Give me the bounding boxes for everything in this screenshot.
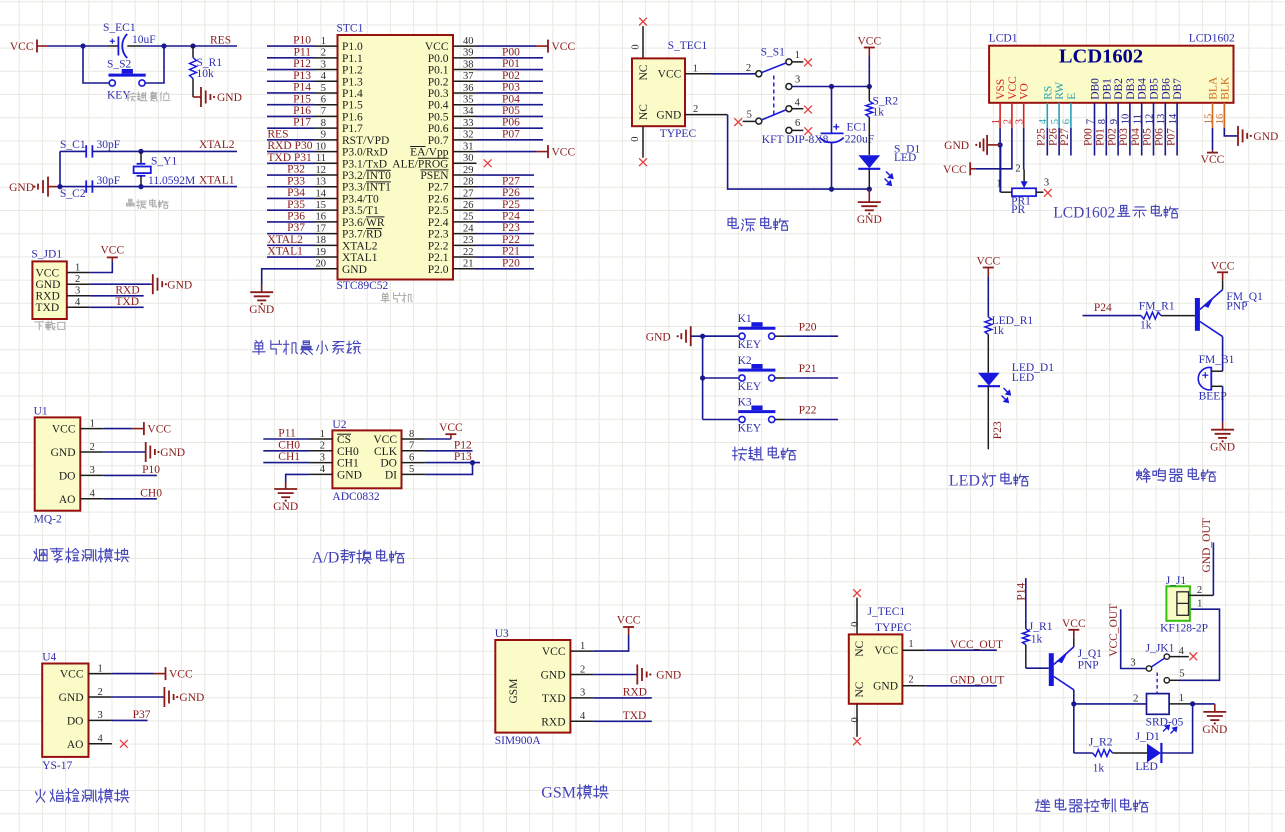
- svg-text:P26: P26: [1047, 128, 1059, 146]
- pin name overline: [337, 433, 351, 435]
- svg-text:P3.7/RD: P3.7/RD: [342, 229, 382, 241]
- pin 24: [453, 233, 477, 235]
- pin 2: [1189, 594, 1214, 596]
- wire: [144, 46, 164, 83]
- wire: [1046, 128, 1048, 156]
- svg-text:9: 9: [321, 130, 326, 141]
- svg-text:P2.3: P2.3: [428, 229, 449, 241]
- wire: [703, 335, 739, 337]
- pin 20: [315, 268, 338, 270]
- svg-text:11.0592M: 11.0592M: [148, 175, 195, 187]
- svg-text:VO: VO: [1019, 83, 1031, 100]
- svg-text:P22: P22: [799, 405, 817, 417]
- svg-text:VCC: VCC: [373, 434, 397, 446]
- wire: [1164, 128, 1166, 156]
- no connect: [1044, 189, 1052, 197]
- svg-text:2: 2: [98, 687, 103, 698]
- wire: [92, 150, 237, 152]
- svg-text:15: 15: [316, 200, 327, 211]
- svg-text:FM_R1: FM_R1: [1139, 300, 1175, 312]
- comment text 按键复位: [126, 92, 169, 102]
- svg-text:NC: NC: [854, 640, 866, 656]
- svg-text:5: 5: [1179, 668, 1184, 679]
- svg-text:35: 35: [463, 95, 474, 106]
- no connect: [484, 159, 492, 167]
- svg-text:J_R2: J_R2: [1089, 737, 1113, 749]
- connector J_TEC1 body: [849, 634, 903, 703]
- no connect: [804, 127, 812, 135]
- pin 30: [453, 162, 477, 164]
- svg-text:P00: P00: [1083, 128, 1095, 146]
- svg-text:P01: P01: [1095, 128, 1107, 146]
- wire: [1058, 128, 1060, 156]
- svg-text:32: 32: [463, 130, 474, 141]
- svg-text:LED: LED: [1012, 372, 1034, 384]
- pin 1: [67, 272, 90, 274]
- svg-text:1: 1: [693, 63, 698, 74]
- wire: [792, 86, 869, 88]
- wire: [477, 151, 537, 153]
- svg-text:EC1: EC1: [847, 122, 868, 134]
- svg-text:1: 1: [1197, 599, 1202, 610]
- wire: [267, 57, 315, 59]
- svg-text:CLK: CLK: [374, 446, 398, 458]
- svg-text:5: 5: [409, 464, 414, 475]
- wire: [267, 127, 315, 129]
- svg-text:P33: P33: [287, 175, 305, 187]
- svg-text:MQ-2: MQ-2: [34, 514, 62, 526]
- wire: [59, 151, 61, 186]
- svg-text:VSS: VSS: [995, 79, 1007, 100]
- svg-text:GND: GND: [59, 692, 84, 704]
- wire: [785, 335, 838, 337]
- svg-text:S_JD1: S_JD1: [31, 249, 62, 261]
- resistor S_R1: [190, 46, 197, 97]
- wire: [1000, 145, 1002, 192]
- svg-text:P20: P20: [502, 257, 520, 269]
- wire: [267, 92, 315, 94]
- wire: [477, 268, 535, 270]
- svg-text:DI: DI: [385, 469, 397, 481]
- wire: [999, 128, 1001, 192]
- wire: [987, 277, 989, 317]
- svg-text:S_C1: S_C1: [60, 139, 86, 151]
- switch K2: [738, 364, 775, 381]
- svg-text:P12: P12: [293, 58, 311, 70]
- svg-text:VCC: VCC: [943, 164, 967, 176]
- svg-text:1k: 1k: [1140, 319, 1152, 331]
- switch contact 3: [786, 84, 792, 90]
- pin 29: [453, 174, 477, 176]
- pin stub: [775, 419, 785, 421]
- wire: [691, 335, 739, 337]
- svg-text:2: 2: [1197, 585, 1202, 596]
- svg-text:P3.4/T0: P3.4/T0: [342, 193, 379, 205]
- pin 4: [309, 473, 332, 475]
- svg-text:7: 7: [1085, 119, 1096, 124]
- svg-text:6: 6: [409, 452, 414, 463]
- svg-text:P1.3: P1.3: [342, 76, 363, 88]
- svg-text:P24: P24: [502, 211, 520, 223]
- svg-text:PSEN: PSEN: [420, 170, 449, 182]
- svg-text:VCC: VCC: [857, 36, 881, 48]
- pin 1: [902, 649, 925, 651]
- svg-text:P24: P24: [1094, 302, 1112, 314]
- wire: [262, 269, 315, 292]
- wire: [267, 256, 315, 258]
- svg-text:P14: P14: [293, 82, 311, 94]
- wire: [1222, 337, 1224, 372]
- svg-text:XTAL2: XTAL2: [342, 240, 378, 252]
- svg-text:P37: P37: [287, 222, 305, 234]
- svg-text:AO: AO: [67, 739, 84, 751]
- svg-text:1k: 1k: [992, 325, 1004, 337]
- connector S_TEC1 body: [632, 58, 685, 126]
- pin name overline: [366, 147, 449, 229]
- svg-text:P23: P23: [992, 421, 1004, 439]
- svg-text:1k: 1k: [873, 106, 885, 118]
- ground: [164, 687, 204, 707]
- wire: [1073, 690, 1075, 753]
- svg-text:P1.6: P1.6: [342, 111, 363, 123]
- svg-text:P0.1: P0.1: [428, 65, 449, 77]
- pin stub: [792, 61, 803, 63]
- ic STC1 body: [338, 35, 454, 280]
- wire: [926, 685, 997, 687]
- svg-text:5: 5: [321, 83, 326, 94]
- svg-text:2: 2: [693, 104, 698, 115]
- svg-text:CH0: CH0: [278, 439, 300, 451]
- svg-text:J_Q1: J_Q1: [1078, 648, 1103, 660]
- svg-text:BLK: BLK: [1219, 76, 1231, 100]
- wire: [1105, 128, 1107, 156]
- svg-text:E: E: [1066, 93, 1078, 100]
- svg-text:P2.1: P2.1: [428, 252, 449, 264]
- switch K3: [738, 406, 775, 423]
- wire: [90, 295, 144, 297]
- pin 4: [80, 498, 103, 500]
- ground: [273, 482, 298, 513]
- wire: [1212, 543, 1214, 596]
- pin 2: [902, 685, 925, 687]
- wire: [263, 450, 309, 452]
- pin 1: [315, 45, 338, 47]
- svg-text:TXD: TXD: [36, 302, 60, 314]
- svg-text:8: 8: [321, 118, 326, 129]
- svg-text:P36: P36: [287, 211, 305, 223]
- svg-text:RST/VPD: RST/VPD: [342, 135, 389, 147]
- svg-text:LCD1602: LCD1602: [1189, 33, 1235, 45]
- wire: [286, 474, 309, 489]
- svg-text:33: 33: [463, 118, 474, 129]
- svg-text:DO: DO: [59, 470, 76, 482]
- svg-text:EA/Vpp: EA/Vpp: [410, 147, 449, 159]
- pin 6: [1070, 103, 1072, 128]
- pin 5: [402, 473, 425, 475]
- svg-text:3: 3: [1044, 178, 1049, 189]
- svg-text:GND: GND: [656, 670, 681, 682]
- wire: [785, 419, 838, 421]
- svg-text:P2.6: P2.6: [428, 193, 449, 205]
- svg-text:A/D: A/D: [312, 550, 340, 567]
- pin 34: [453, 115, 477, 117]
- svg-text:P06: P06: [502, 117, 520, 129]
- svg-text:1: 1: [90, 418, 95, 429]
- junction: [1071, 701, 1076, 706]
- wire: [267, 244, 315, 246]
- svg-text:TXD: TXD: [542, 693, 566, 705]
- switch S_S1 pole A: [756, 59, 792, 77]
- svg-text:P3.6/WR: P3.6/WR: [342, 217, 385, 229]
- svg-text:5: 5: [747, 110, 752, 121]
- pin 7: [1094, 103, 1096, 128]
- svg-text:CH0: CH0: [337, 446, 359, 458]
- svg-text:GND: GND: [1210, 442, 1235, 454]
- svg-text:1: 1: [795, 50, 800, 61]
- svg-text:P3.2/INT0: P3.2/INT0: [342, 170, 391, 182]
- section title 继电器控制电路: [1035, 799, 1148, 813]
- capacitor S_EC1: [103, 22, 156, 58]
- svg-text:14: 14: [316, 188, 327, 199]
- pin 39: [453, 57, 477, 59]
- no connect: [120, 740, 128, 748]
- comment text 晶振电路: [127, 199, 169, 208]
- svg-text:20: 20: [316, 259, 327, 270]
- capacitor EC1: [820, 124, 844, 143]
- pin 11: [315, 162, 338, 164]
- wire: [1023, 128, 1025, 170]
- ground: [1210, 422, 1235, 454]
- svg-text:GND: GND: [1253, 131, 1278, 143]
- svg-text:AO: AO: [59, 494, 76, 506]
- pin stub: [775, 377, 785, 379]
- svg-text:VCC: VCC: [425, 41, 449, 53]
- potentiometer PR1: [1001, 170, 1044, 197]
- svg-text:DB1: DB1: [1101, 78, 1113, 100]
- svg-text:XTAL1: XTAL1: [342, 252, 378, 264]
- power port VCC: [1211, 260, 1235, 280]
- svg-text:NC: NC: [854, 681, 866, 697]
- svg-text:16: 16: [1215, 114, 1226, 125]
- pin 12: [1153, 103, 1155, 128]
- pin 28: [453, 186, 477, 188]
- power port VCC: [100, 245, 124, 262]
- wire: [104, 498, 157, 500]
- led S_D1: [858, 155, 880, 189]
- svg-text:GSM: GSM: [541, 785, 576, 802]
- svg-text:P35: P35: [287, 199, 305, 211]
- svg-text:P37: P37: [133, 709, 151, 721]
- pin 8: [1105, 103, 1107, 128]
- svg-text:P1.1: P1.1: [342, 53, 363, 65]
- svg-text:KEY: KEY: [738, 339, 762, 351]
- wire: [477, 80, 544, 82]
- svg-text:1: 1: [75, 262, 80, 273]
- svg-text:27: 27: [463, 188, 474, 199]
- wire: [425, 462, 480, 464]
- svg-text:KF128-2P: KF128-2P: [1160, 623, 1208, 635]
- svg-text:7: 7: [409, 441, 414, 452]
- pin 3: [315, 69, 338, 71]
- svg-text:P3.3/INT1: P3.3/INT1: [342, 182, 391, 194]
- svg-text:YS-17: YS-17: [42, 760, 72, 772]
- led arrows: [1002, 388, 1011, 402]
- svg-text:ALE/PROG: ALE/PROG: [392, 158, 448, 170]
- svg-text:P11: P11: [278, 428, 296, 440]
- wire: [728, 115, 870, 190]
- svg-text:P07: P07: [502, 128, 520, 140]
- svg-text:P2.4: P2.4: [428, 217, 449, 229]
- svg-text:DB5: DB5: [1149, 78, 1161, 100]
- svg-text:2: 2: [320, 441, 325, 452]
- junction: [161, 43, 166, 48]
- svg-text:38: 38: [463, 59, 474, 70]
- svg-text:S_TEC1: S_TEC1: [668, 40, 708, 52]
- svg-text:40: 40: [463, 36, 474, 47]
- svg-text:NC: NC: [638, 64, 650, 80]
- pin 3: [309, 462, 332, 464]
- svg-text:P1.0: P1.0: [342, 41, 363, 53]
- svg-text:11: 11: [316, 153, 326, 164]
- ground: [151, 274, 192, 294]
- svg-text:P16: P16: [293, 105, 311, 117]
- no connect: [639, 18, 647, 26]
- svg-text:1: 1: [320, 429, 325, 440]
- wire: [263, 438, 309, 440]
- pin 4: [315, 80, 338, 82]
- pin 1: [89, 673, 112, 675]
- svg-text:P12: P12: [454, 439, 472, 451]
- wire: [831, 87, 833, 134]
- power port VCC: [154, 667, 193, 681]
- wire: [1222, 386, 1224, 421]
- wire: [425, 450, 473, 452]
- svg-text:P05: P05: [1142, 128, 1154, 146]
- power port VCC: [976, 256, 1000, 277]
- wire: [477, 45, 537, 47]
- power port VCC: [132, 422, 171, 436]
- svg-text:K2: K2: [738, 355, 752, 367]
- svg-text:VCC_OUT: VCC_OUT: [950, 639, 1003, 651]
- ground: [193, 87, 242, 107]
- wire: [263, 462, 309, 464]
- wire: [477, 139, 544, 141]
- svg-text:4: 4: [90, 489, 96, 500]
- svg-text:4: 4: [321, 71, 327, 82]
- svg-text:P10: P10: [293, 35, 311, 47]
- svg-text:31: 31: [463, 141, 474, 152]
- wire: [1161, 704, 1192, 753]
- svg-text:6: 6: [795, 118, 800, 129]
- svg-text:J_J1: J_J1: [1166, 575, 1187, 587]
- svg-text:P04: P04: [1130, 128, 1142, 146]
- svg-text:0: 0: [850, 717, 861, 722]
- svg-text:P17: P17: [293, 117, 311, 129]
- relay contact 5: [1164, 678, 1169, 683]
- svg-text:GND: GND: [342, 264, 367, 276]
- wire: [267, 151, 315, 153]
- wire: [477, 233, 535, 235]
- svg-text:13: 13: [316, 177, 327, 188]
- wire: [1117, 128, 1119, 156]
- svg-text:4: 4: [580, 711, 586, 722]
- svg-text:KFT DIP-8X8: KFT DIP-8X8: [762, 134, 829, 146]
- no connect: [804, 59, 812, 67]
- svg-text:P11: P11: [294, 46, 312, 58]
- wire: [1026, 667, 1049, 669]
- ic U4 body: [42, 664, 88, 757]
- comment text 下载口: [35, 321, 65, 330]
- svg-text:RXD: RXD: [115, 284, 139, 296]
- svg-text:J_R1: J_R1: [1029, 621, 1053, 633]
- wire: [703, 419, 739, 421]
- switch S_S1 pole B: [756, 106, 792, 124]
- ground: [146, 442, 185, 462]
- svg-text:DO: DO: [380, 458, 397, 470]
- pin 13: [1164, 103, 1166, 128]
- wire: [1070, 128, 1072, 156]
- buzzer FM_B1: [1198, 367, 1222, 391]
- svg-text:P2.7: P2.7: [428, 182, 449, 194]
- pin 23: [453, 244, 477, 246]
- wire: [267, 69, 315, 71]
- wire: [267, 45, 315, 47]
- svg-text:VCC: VCC: [1007, 76, 1019, 100]
- wire: [425, 438, 451, 440]
- svg-text:U4: U4: [42, 652, 56, 664]
- svg-text:P0.7: P0.7: [428, 135, 449, 147]
- svg-text:RXD: RXD: [623, 687, 647, 699]
- svg-text:VCC: VCC: [1211, 260, 1235, 272]
- svg-text:GND: GND: [337, 469, 362, 481]
- svg-text:VCC: VCC: [617, 615, 641, 627]
- svg-text:P21: P21: [502, 246, 520, 258]
- svg-text:3: 3: [75, 286, 80, 297]
- svg-text:P20: P20: [799, 321, 817, 333]
- svg-text:TXD: TXD: [623, 710, 647, 722]
- svg-text:4: 4: [98, 734, 104, 745]
- svg-text:P04: P04: [502, 93, 520, 105]
- svg-text:2: 2: [908, 674, 913, 685]
- svg-text:P23: P23: [502, 222, 520, 234]
- comment text 单片机: [381, 293, 412, 303]
- svg-text:36: 36: [463, 83, 474, 94]
- svg-text:VCC: VCC: [552, 147, 576, 159]
- wire: [112, 719, 148, 721]
- no connect: [734, 118, 742, 126]
- svg-text:RXD P30: RXD P30: [267, 140, 312, 152]
- svg-text:DB6: DB6: [1160, 78, 1172, 100]
- pin stub: [1170, 679, 1180, 681]
- pin 7: [315, 115, 338, 117]
- svg-text:13: 13: [1156, 114, 1167, 125]
- wire: [594, 720, 652, 722]
- wire: [267, 115, 315, 117]
- svg-text:S_S2: S_S2: [107, 59, 132, 71]
- junction: [1190, 701, 1195, 706]
- wire: [1083, 315, 1142, 317]
- svg-text:NC: NC: [638, 104, 650, 120]
- wire: [477, 57, 544, 59]
- svg-text:P27: P27: [502, 175, 520, 187]
- junction: [829, 187, 834, 192]
- pin 14: [315, 197, 338, 199]
- relay coil J_JK1: [1147, 694, 1170, 715]
- svg-text:S_S1: S_S1: [761, 47, 786, 59]
- svg-text:P25: P25: [1036, 128, 1048, 146]
- pin 25: [453, 221, 477, 223]
- svg-text:GND: GND: [646, 331, 671, 343]
